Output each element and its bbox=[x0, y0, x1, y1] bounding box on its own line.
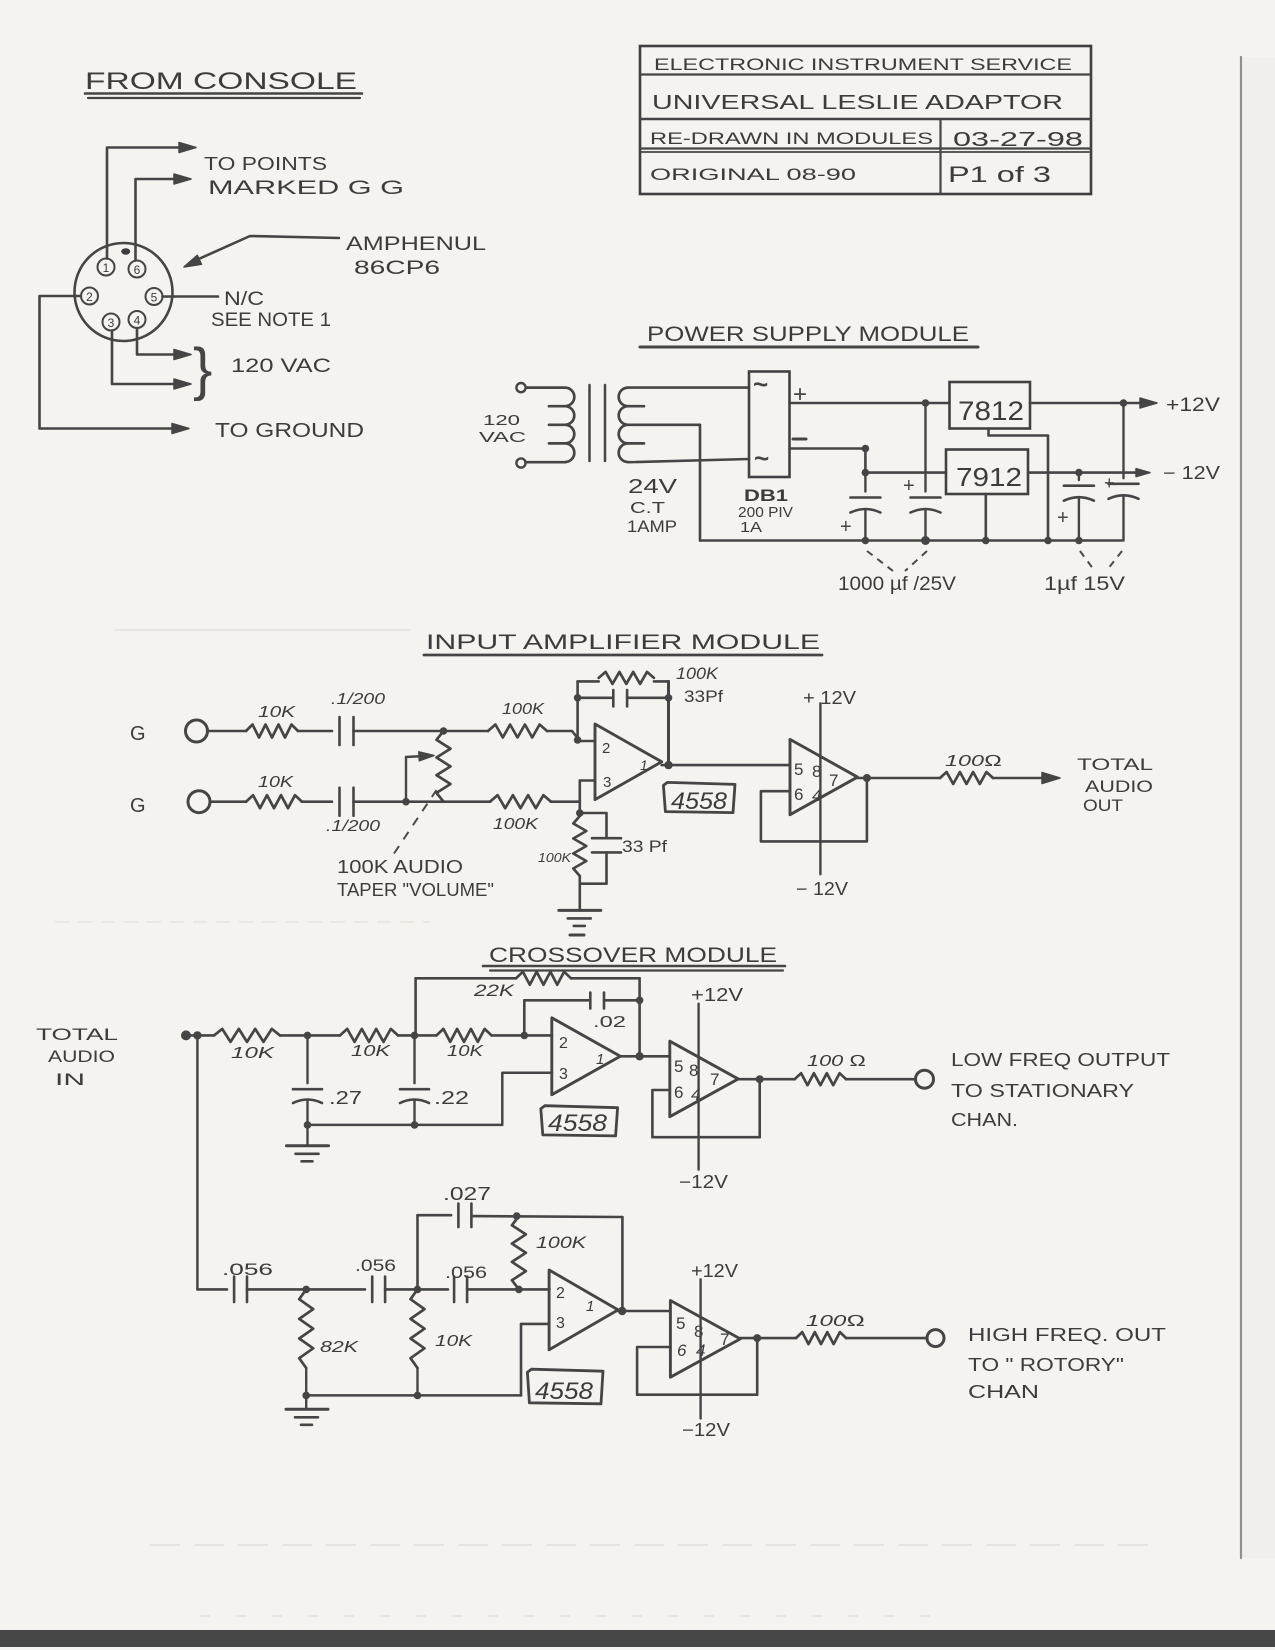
svg-text:− 12V: − 12V bbox=[796, 879, 848, 899]
wire into pin 2 bbox=[578, 740, 595, 743]
capacitor C13 .056 plates bbox=[371, 1277, 374, 1303]
ground symbol hp bbox=[286, 1408, 328, 1411]
pin 3 bbox=[103, 314, 120, 331]
transformer T1 primary winding bbox=[526, 388, 575, 462]
junction dot feedback left bbox=[574, 694, 582, 702]
svg-text:TOTAL: TOTAL bbox=[36, 1025, 118, 1044]
svg-text:+: + bbox=[1104, 473, 1115, 493]
junction dot U3B out bbox=[753, 1334, 761, 1342]
svg-text:03-27-98: 03-27-98 bbox=[953, 129, 1083, 151]
transformer T1 primary terminal top bbox=[516, 383, 525, 392]
svg-text:3: 3 bbox=[559, 1066, 568, 1083]
feedback node dot pin3 bbox=[576, 809, 584, 817]
junction dot cap3 top bbox=[1075, 469, 1083, 477]
junction dot C9 bottom bbox=[304, 1121, 312, 1129]
svg-text:100K: 100K bbox=[493, 816, 540, 833]
capacitor C10 plates bbox=[400, 1088, 429, 1091]
cap .02 left vertical bbox=[523, 1000, 526, 1035]
crossover underline double bbox=[483, 965, 785, 968]
input terminal G upper bbox=[186, 720, 208, 742]
svg-text:N/C: N/C bbox=[224, 289, 264, 310]
svg-text:.027: .027 bbox=[443, 1184, 491, 1204]
svg-text:+: + bbox=[903, 475, 915, 497]
wire secondary bottom to bridge bbox=[628, 459, 749, 462]
pin3 wire hp bbox=[521, 1324, 549, 1396]
svg-text:7912: 7912 bbox=[956, 462, 1022, 492]
svg-text:6: 6 bbox=[134, 263, 141, 277]
wire C5 to pot bbox=[354, 730, 444, 733]
svg-text:7: 7 bbox=[710, 1070, 719, 1089]
capacitor C12 .056 plates bbox=[233, 1277, 236, 1303]
svg-text:4: 4 bbox=[134, 314, 141, 328]
power title underline bbox=[640, 346, 978, 349]
svg-text:−12V: −12V bbox=[679, 1172, 728, 1192]
pointer dashes 1000uf bbox=[867, 551, 893, 571]
pin 1 bbox=[98, 259, 115, 276]
svg-text:4558: 4558 bbox=[548, 1110, 608, 1137]
hp ground lead bbox=[305, 1368, 307, 1409]
capacitor C9 lower lead bbox=[306, 1100, 308, 1125]
svg-text:C.T: C.T bbox=[630, 500, 665, 517]
wire U2A out bbox=[620, 1055, 670, 1058]
wire C6 to wiper junction bbox=[354, 800, 407, 803]
svg-text:TO POINTS: TO POINTS bbox=[204, 154, 327, 174]
svg-text:IN: IN bbox=[55, 1070, 85, 1089]
junction dot .027 bbox=[513, 1212, 521, 1220]
wire R10 to pin2 bbox=[492, 1034, 553, 1037]
junction dot wiper bbox=[402, 798, 410, 806]
title block vertical divider bbox=[939, 119, 941, 194]
title underline double bbox=[85, 92, 362, 95]
svg-text:1µf 15V: 1µf 15V bbox=[1044, 574, 1125, 595]
svg-text:5: 5 bbox=[151, 291, 158, 305]
op-amp U1A triangle bbox=[595, 724, 662, 800]
wire 7912 out to -12V bbox=[1028, 471, 1140, 474]
ground symbol input amp bbox=[559, 909, 601, 912]
svg-text:10K: 10K bbox=[351, 1043, 392, 1060]
title block divider row2 bbox=[640, 118, 1091, 120]
capacitor C2 plates bbox=[911, 496, 941, 499]
pot wiper lead bbox=[405, 757, 407, 802]
faint ruled line 4 bbox=[200, 1615, 950, 1617]
svg-text:7: 7 bbox=[720, 1330, 729, 1349]
junction dot C10 bottom bbox=[411, 1121, 419, 1129]
svg-text:.27: .27 bbox=[329, 1088, 362, 1108]
wire secondary top to bridge bbox=[628, 386, 749, 389]
svg-text:UNIVERSAL LESLIE ADAPTOR: UNIVERSAL LESLIE ADAPTOR bbox=[652, 92, 1063, 114]
svg-text:OUT: OUT bbox=[1083, 796, 1123, 815]
junction dot pin2 xo bbox=[521, 1032, 529, 1040]
svg-text:}: } bbox=[193, 337, 212, 402]
resistor R3 10K bbox=[246, 795, 302, 808]
arrow +12V bbox=[1140, 398, 1157, 408]
stray dash above title bbox=[570, 934, 584, 937]
resistor R16 100ohm hp bbox=[796, 1332, 846, 1344]
capacitor C2 lower lead bbox=[924, 510, 926, 541]
capacitor C15 .027 plates bbox=[457, 1204, 460, 1228]
capacitor C14 .056 plates bbox=[453, 1277, 456, 1303]
svg-text:POWER SUPPLY MODULE: POWER SUPPLY MODULE bbox=[647, 323, 969, 346]
junction dot plus rail bbox=[922, 399, 930, 407]
svg-text:LOW FREQ OUTPUT: LOW FREQ OUTPUT bbox=[951, 1050, 1170, 1070]
junction dot 10K bottom bbox=[414, 1392, 422, 1400]
op-amp U2B triangle bbox=[670, 1041, 738, 1117]
wire R4 to pin3 riser bbox=[551, 800, 580, 803]
svg-text:CHAN: CHAN bbox=[968, 1382, 1039, 1402]
arrow to ground bbox=[172, 424, 189, 434]
svg-text:24V: 24V bbox=[628, 476, 678, 498]
op-amp U3A triangle bbox=[549, 1270, 618, 1350]
svg-text:7: 7 bbox=[829, 771, 838, 790]
svg-text:−12V: −12V bbox=[682, 1420, 730, 1440]
svg-text:.02: .02 bbox=[593, 1014, 626, 1031]
svg-text:~: ~ bbox=[754, 443, 769, 473]
U3B feedback loop bbox=[637, 1338, 757, 1395]
wire C12 to node bbox=[247, 1288, 365, 1291]
wire U1B out bbox=[858, 777, 941, 780]
wire R9 R10 bbox=[398, 1034, 437, 1037]
feedback right vertical hp bbox=[621, 1217, 624, 1311]
IC box 4558 xo low bbox=[541, 1106, 618, 1136]
capacitor C1 plates bbox=[850, 496, 880, 499]
input node dot bbox=[181, 1030, 191, 1040]
wire R8 R9 bbox=[280, 1034, 340, 1037]
xo ground lead bbox=[306, 1125, 308, 1146]
high freq output terminal bbox=[927, 1330, 944, 1347]
wire into pin 3 bbox=[580, 779, 595, 782]
svg-text:AUDIO: AUDIO bbox=[1085, 777, 1153, 796]
svg-text:RE-DRAWN IN MODULES: RE-DRAWN IN MODULES bbox=[650, 130, 933, 148]
svg-text:INPUT AMPLIFIER MODULE: INPUT AMPLIFIER MODULE bbox=[426, 631, 820, 654]
wire bridge minus to junction bbox=[790, 447, 866, 450]
arrowhead Amphenol bbox=[184, 255, 202, 267]
wire pin1 to points arrow bbox=[107, 148, 186, 259]
arrow like lead mark bbox=[445, 1214, 451, 1216]
wire secondary center tap bbox=[628, 425, 700, 541]
junction dot pin2 node bbox=[574, 736, 582, 744]
input amp title underline bbox=[424, 654, 822, 657]
svg-text:33Pf: 33Pf bbox=[684, 687, 723, 706]
capacitor C10 lower lead bbox=[413, 1100, 415, 1125]
junction dot 22K bbox=[411, 1032, 419, 1040]
junction dot minus bbox=[862, 445, 870, 453]
wire pin3 to 120VAC bbox=[112, 331, 181, 385]
svg-text:22K: 22K bbox=[473, 981, 515, 1000]
junction dot 82K bbox=[302, 1286, 310, 1294]
connector key dot bbox=[121, 248, 130, 254]
wire R1 to C5 bbox=[298, 730, 332, 733]
junction dot 10K hp bbox=[414, 1286, 422, 1294]
svg-text:100K: 100K bbox=[676, 664, 719, 683]
hp rail left bbox=[197, 1288, 227, 1291]
feedback cap wire left bbox=[578, 696, 614, 699]
resistor R5 100K to ground bbox=[573, 816, 586, 876]
wire U1A out bbox=[662, 764, 790, 767]
feedback 22K right vertical bbox=[638, 978, 641, 1056]
wire C13 to node bbox=[385, 1288, 448, 1291]
feedback cap wire right bbox=[627, 696, 668, 699]
capacitor C9 .27 lead bbox=[306, 1035, 308, 1083]
svg-text:100 Ω: 100 Ω bbox=[807, 1053, 866, 1070]
svg-text:TO " ROTORY": TO " ROTORY" bbox=[968, 1355, 1124, 1375]
wire R2 to pin2 node bbox=[547, 731, 578, 741]
svg-text:HIGH FREQ. OUT: HIGH FREQ. OUT bbox=[968, 1325, 1166, 1345]
U2B feedback loop bbox=[652, 1079, 759, 1137]
svg-text:7812: 7812 bbox=[958, 396, 1024, 426]
svg-text:AUDIO: AUDIO bbox=[48, 1047, 115, 1066]
wire 7912 ground pin bbox=[984, 494, 987, 541]
svg-text:CHAN.: CHAN. bbox=[951, 1110, 1018, 1130]
svg-text:1A: 1A bbox=[740, 519, 762, 536]
svg-text:6: 6 bbox=[674, 1083, 683, 1102]
resistor R12 100ohm bbox=[795, 1073, 846, 1085]
resistor R6 100K feedback bbox=[599, 672, 654, 684]
svg-text:TOTAL: TOTAL bbox=[1077, 755, 1153, 774]
feedback 22K top left bbox=[416, 977, 516, 980]
resistor R15 100K hp bbox=[512, 1216, 526, 1289]
pin 6 bbox=[129, 261, 146, 278]
svg-text:10K: 10K bbox=[258, 704, 297, 721]
svg-text:.1/200: .1/200 bbox=[331, 691, 385, 708]
scan edge line right bbox=[1240, 57, 1242, 1558]
arrow total audio out bbox=[1042, 773, 1060, 784]
svg-text:SEE NOTE 1: SEE NOTE 1 bbox=[211, 310, 331, 331]
svg-text:10K: 10K bbox=[231, 1045, 276, 1062]
low freq output terminal bbox=[916, 1070, 934, 1088]
wire R16 to terminal bbox=[846, 1337, 927, 1340]
capacitor C2 1000uf lead bbox=[924, 403, 926, 492]
wire pin2 to ground arrow bbox=[40, 296, 179, 429]
svg-text:1: 1 bbox=[103, 261, 110, 275]
regulator 7912 box bbox=[946, 450, 1028, 495]
wire U2B out bbox=[738, 1078, 795, 1081]
wire G lower to R3 bbox=[210, 800, 246, 803]
svg-text:100Ω: 100Ω bbox=[945, 753, 1002, 770]
svg-text:DB1: DB1 bbox=[744, 486, 788, 505]
svg-text:+ 12V: + 12V bbox=[803, 688, 856, 708]
resistor R13 82K bbox=[299, 1289, 313, 1368]
wire 7812 out to +12V bbox=[1030, 402, 1146, 405]
svg-text:+: + bbox=[1057, 507, 1069, 529]
wire R7 to arrow bbox=[993, 777, 1046, 780]
svg-text:120 VAC: 120 VAC bbox=[231, 356, 331, 377]
feedback right vertical bbox=[667, 681, 670, 765]
feedback 22K top right bbox=[571, 977, 640, 980]
svg-text:33 Pf: 33 Pf bbox=[622, 837, 667, 856]
U1B power vertical bbox=[819, 703, 821, 874]
wire R3 to C6 bbox=[302, 800, 332, 803]
svg-text:CROSSOVER MODULE: CROSSOVER MODULE bbox=[489, 944, 777, 967]
wire pot to R2 bbox=[444, 730, 489, 733]
svg-text:100Ω: 100Ω bbox=[806, 1313, 865, 1330]
svg-text:.056: .056 bbox=[445, 1263, 487, 1282]
svg-text:1000 µf /25V: 1000 µf /25V bbox=[838, 574, 956, 595]
svg-text:VAC: VAC bbox=[479, 429, 526, 446]
wire G upper to R1 bbox=[208, 730, 247, 733]
regulator 7812 box bbox=[950, 382, 1031, 429]
op-amp U3B triangle bbox=[670, 1301, 740, 1378]
capacitor C4 1uf lead bbox=[1122, 403, 1124, 478]
svg-text:1AMP: 1AMP bbox=[627, 517, 677, 536]
capacitor C5 .1/200 bbox=[338, 717, 341, 745]
xo bottom wire bbox=[308, 1073, 553, 1125]
svg-text:1: 1 bbox=[640, 757, 648, 773]
pot wiper arrow bbox=[406, 756, 424, 757]
svg-text:3: 3 bbox=[556, 1315, 565, 1332]
pointer dashes 1uf bbox=[1080, 551, 1094, 570]
U3B power vertical bbox=[699, 1279, 701, 1418]
resistor R10 10K bbox=[437, 1029, 492, 1042]
wire pin6 to points arrow bbox=[136, 179, 182, 261]
capacitor C9 plates bbox=[293, 1088, 322, 1091]
svg-text:− 12V: − 12V bbox=[1163, 463, 1220, 483]
wire U3A out bbox=[618, 1310, 670, 1313]
junction dot minus2 bbox=[862, 469, 870, 477]
title block divider row3 double bbox=[640, 147, 1091, 149]
junction dot .02 right bbox=[636, 997, 644, 1005]
svg-text:2: 2 bbox=[86, 290, 93, 304]
wire pin4 to 120VAC bbox=[137, 328, 181, 355]
arrow marked GG bbox=[174, 174, 191, 184]
pin 2 bbox=[81, 288, 98, 305]
primary bottom lead bbox=[526, 461, 566, 464]
junction dot U2B out bbox=[756, 1075, 764, 1083]
U2B power vertical bbox=[697, 1004, 699, 1170]
svg-text:5: 5 bbox=[676, 1314, 685, 1333]
title block outer box bbox=[640, 46, 1091, 194]
ground symbol crossover low bbox=[287, 1144, 329, 1147]
dashed pointer volume pot bbox=[394, 790, 437, 854]
pin3 riser bbox=[578, 781, 581, 814]
pin 4 bbox=[129, 311, 146, 328]
cap .02 wire left bbox=[524, 999, 590, 1002]
IC box 4558 input amp bbox=[663, 782, 735, 812]
wire pin5 NC bbox=[163, 295, 219, 298]
svg-text:TAPER "VOLUME": TAPER "VOLUME" bbox=[337, 880, 494, 900]
feedback .027 top right bbox=[471, 1215, 622, 1219]
arrow to points bbox=[179, 143, 196, 153]
op-amp U1B triangle bbox=[790, 739, 858, 814]
junction dot 82K bottom bbox=[302, 1392, 310, 1400]
resistor R2 100K bbox=[488, 725, 547, 738]
svg-text:2: 2 bbox=[602, 740, 610, 757]
svg-text:.056: .056 bbox=[222, 1260, 273, 1279]
svg-text:8: 8 bbox=[689, 1061, 698, 1080]
arrow -12V bbox=[1136, 469, 1150, 477]
resistor R7 100ohm bbox=[940, 772, 993, 784]
svg-text:10K: 10K bbox=[447, 1043, 485, 1060]
svg-text:P1 of 3: P1 of 3 bbox=[948, 162, 1051, 187]
resistor R4 100K bbox=[490, 795, 551, 808]
wire R12 to terminal bbox=[846, 1078, 916, 1081]
capacitor C6 .1/200 bbox=[338, 788, 341, 816]
capacitor C1 lower lead bbox=[864, 510, 866, 541]
scan bottom dark band bbox=[0, 1630, 1275, 1647]
capacitor C7 lower lead bbox=[580, 852, 607, 883]
junction dot feedback right bbox=[665, 694, 673, 702]
faint ruled line 2 bbox=[55, 921, 430, 923]
capacitor C11 .02 plates bbox=[589, 993, 592, 1009]
svg-text:8: 8 bbox=[694, 1322, 703, 1341]
junction dot 100K hp bbox=[515, 1286, 523, 1294]
junction dot U1A out bbox=[664, 761, 672, 769]
wire 7812 ground pin bbox=[989, 429, 1049, 541]
hp bottom rail bbox=[306, 1394, 521, 1397]
capacitor C4 plates bbox=[1109, 482, 1139, 485]
resistor R14 lower lead bbox=[416, 1368, 418, 1395]
arrow 120VAC lower bbox=[174, 379, 191, 389]
resistor R11 22K bbox=[516, 972, 571, 985]
cap .02 wire right bbox=[604, 999, 640, 1002]
svg-text:6: 6 bbox=[794, 785, 803, 804]
resistor R14 10K bbox=[411, 1289, 425, 1368]
capacitor C3 1uf lead bbox=[1078, 473, 1080, 480]
svg-text:4558: 4558 bbox=[535, 1378, 594, 1405]
svg-text:G: G bbox=[130, 795, 146, 817]
svg-text:TO GROUND: TO GROUND bbox=[215, 420, 364, 442]
pin 5 bbox=[146, 288, 163, 305]
pointer line Amphenol bbox=[192, 236, 339, 262]
junction dot input riser bbox=[193, 1031, 201, 1039]
svg-text:100K AUDIO: 100K AUDIO bbox=[337, 857, 463, 877]
svg-text:+12V: +12V bbox=[691, 1261, 738, 1281]
wire input node bbox=[186, 1034, 214, 1037]
svg-text:+12V: +12V bbox=[691, 985, 743, 1005]
secondary winding stubs bbox=[628, 405, 644, 408]
bridge minus sign bbox=[793, 438, 806, 441]
wire bridge plus to 7812 bbox=[790, 402, 950, 405]
svg-text:+12V: +12V bbox=[1166, 395, 1220, 416]
feedback left vertical bbox=[576, 681, 579, 740]
long riser from input node bbox=[196, 1035, 199, 1289]
svg-text:86CP6: 86CP6 bbox=[354, 258, 440, 279]
feedback top wire left bbox=[578, 680, 599, 683]
svg-text:100K: 100K bbox=[538, 850, 572, 865]
svg-text:ORIGINAL 08-90: ORIGINAL 08-90 bbox=[650, 165, 856, 184]
svg-text:2: 2 bbox=[559, 1035, 568, 1052]
svg-text:4558: 4558 bbox=[671, 788, 728, 815]
junction dots ground rail bbox=[862, 537, 870, 545]
wire cap branch top bbox=[580, 813, 607, 838]
svg-text:2: 2 bbox=[556, 1285, 565, 1302]
svg-text:.1/200: .1/200 bbox=[326, 818, 380, 835]
capacitor C7 33pf plates bbox=[592, 837, 621, 840]
svg-text:AMPHENUL: AMPHENUL bbox=[346, 234, 486, 255]
bridge rectifier DB1 box bbox=[749, 372, 790, 478]
svg-text:6: 6 bbox=[677, 1341, 687, 1360]
resistor R9 10K bbox=[340, 1029, 398, 1042]
junction dot U2A out bbox=[635, 1052, 643, 1060]
wire junction to R4 bbox=[406, 800, 490, 803]
capacitor C1 1000uf lead bbox=[864, 473, 866, 492]
feedback .027 left vertical bbox=[416, 1215, 419, 1289]
svg-text:5: 5 bbox=[674, 1057, 683, 1076]
wire C14 to pin2 bbox=[467, 1288, 549, 1291]
transformer core lines bbox=[588, 385, 591, 461]
arrow 120VAC upper bbox=[174, 350, 191, 360]
svg-text:10K: 10K bbox=[258, 774, 295, 791]
connector J1 Amphenol 86CP6 body bbox=[75, 243, 173, 341]
junction dot pot top bbox=[440, 727, 448, 735]
capacitor C4 lower lead bbox=[1122, 496, 1124, 541]
svg-text:82K: 82K bbox=[320, 1339, 360, 1356]
svg-text:MARKED G G: MARKED G G bbox=[208, 178, 404, 199]
power supply ground rail bbox=[700, 539, 1122, 542]
svg-text:100K: 100K bbox=[502, 701, 545, 718]
junction dot C9 top bbox=[304, 1032, 312, 1040]
capacitor C3 lower lead bbox=[1078, 498, 1080, 541]
svg-text:.22: .22 bbox=[434, 1088, 469, 1108]
